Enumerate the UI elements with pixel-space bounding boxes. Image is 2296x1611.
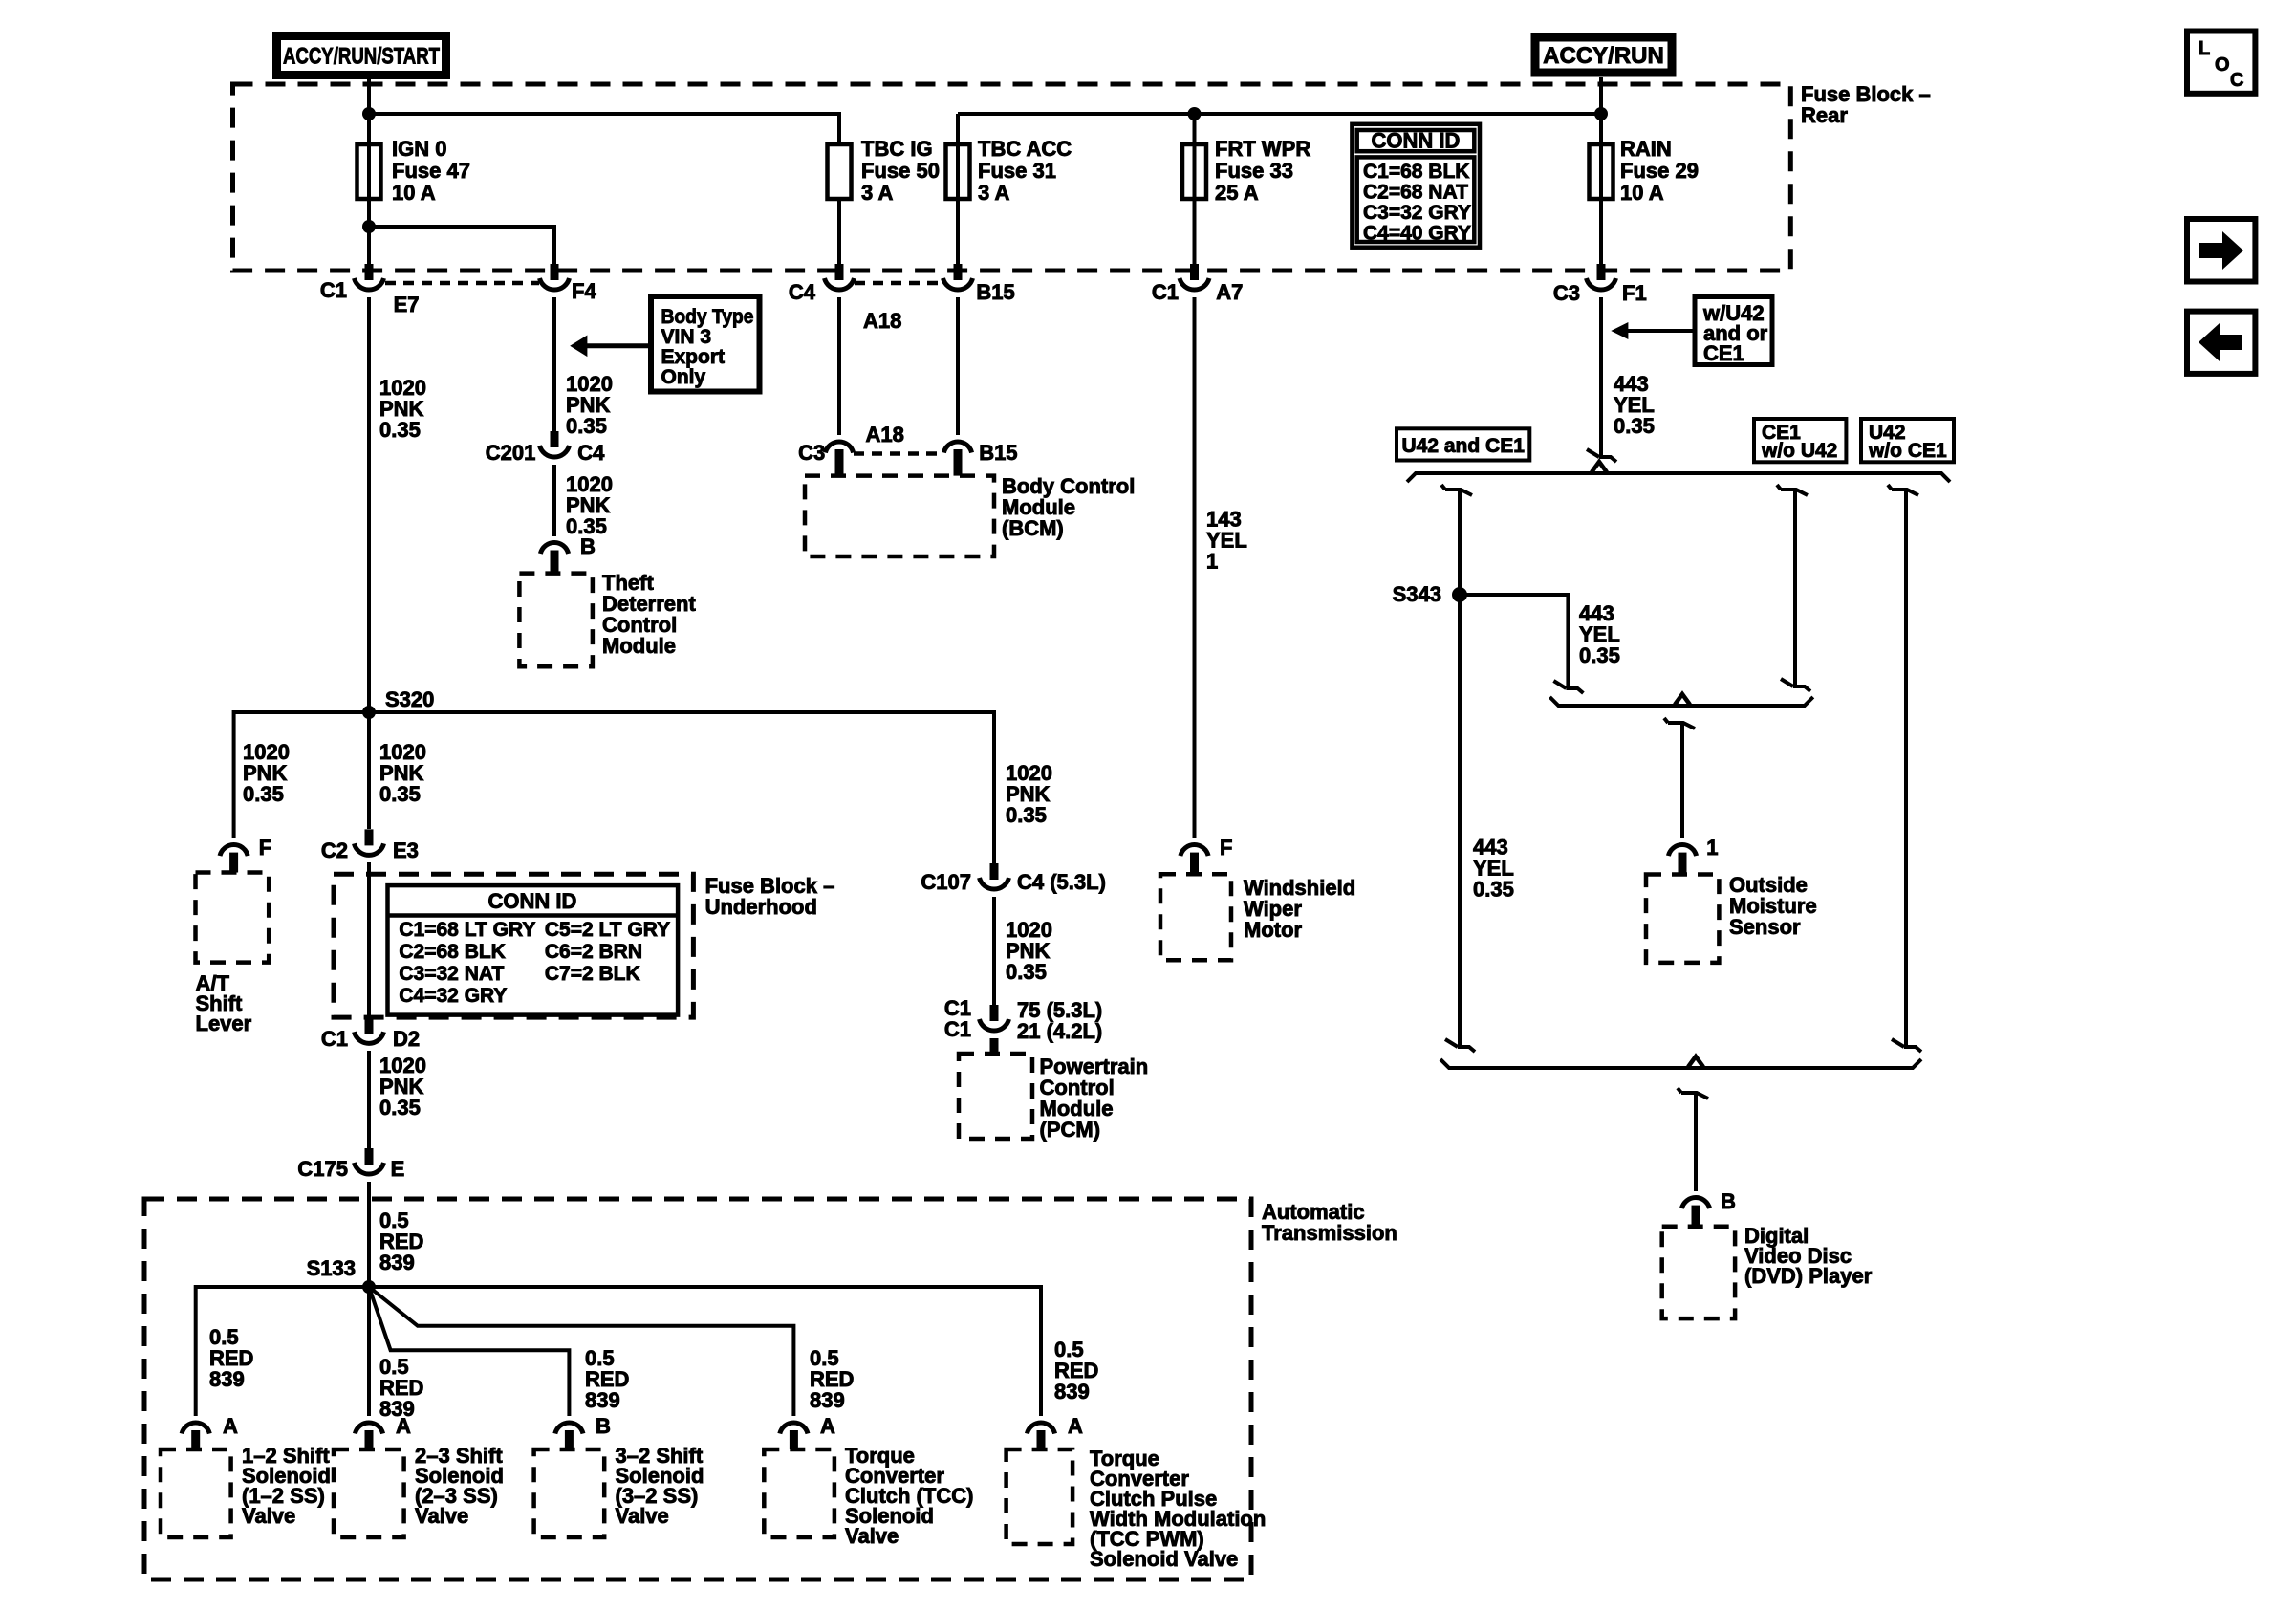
svg-text:TBC ACC: TBC ACC [978, 137, 1072, 161]
connector C3/F1 [1587, 264, 1616, 290]
svg-text:Fuse 50: Fuse 50 [861, 159, 940, 183]
svg-text:C107: C107 [921, 870, 971, 894]
svg-text:C2=68 BLK: C2=68 BLK [399, 941, 505, 963]
wire drop to S343 [1458, 490, 1462, 595]
svg-text:0.35: 0.35 [1579, 643, 1620, 667]
connector C175/E [355, 1148, 384, 1174]
svg-text:C1: C1 [1152, 280, 1179, 304]
svg-text:IGN 0: IGN 0 [392, 137, 446, 161]
break hook S343 branch [1553, 681, 1566, 688]
junction under ACCY/RUN/START [362, 107, 376, 120]
body type VIN3 export callout box [651, 296, 760, 392]
splice S133 [362, 1280, 376, 1294]
svg-text:C1=68 LT GRY: C1=68 LT GRY [399, 919, 535, 941]
1-2 shift solenoid box [161, 1449, 231, 1537]
svg-text:839: 839 [1054, 1380, 1090, 1404]
wire S133 to TCC solenoid [369, 1287, 793, 1416]
conn id table underhood [388, 885, 679, 1015]
svg-text:Rear: Rear [1801, 103, 1848, 127]
splice S320 [362, 706, 376, 719]
svg-text:Body Type: Body Type [661, 306, 754, 328]
svg-text:Valve: Valve [415, 1504, 468, 1528]
svg-text:Module: Module [602, 634, 676, 658]
svg-text:C4: C4 [789, 280, 816, 304]
connector C107/C4 [980, 863, 1009, 889]
svg-text:D2: D2 [393, 1027, 420, 1051]
svg-text:C4=40 GRY: C4=40 GRY [1363, 223, 1471, 245]
svg-text:Only: Only [661, 366, 706, 388]
connector C1/E7 [355, 264, 384, 290]
connector F wiper motor [1180, 845, 1208, 857]
connector C4 (TBC IG) [825, 264, 855, 290]
wire to connector E7 [367, 227, 371, 264]
drop U42 w/o CE1 top hook [1892, 490, 1918, 495]
connector C3 BCM [825, 442, 853, 453]
svg-text:C1: C1 [944, 1017, 971, 1041]
break hook below F1 [1587, 449, 1599, 457]
fuse block rear dashed box [233, 84, 1791, 271]
connector C1/C1 PCM [980, 1005, 1009, 1031]
svg-text:C7=2 BLK: C7=2 BLK [545, 963, 640, 985]
svg-text:E7: E7 [394, 293, 420, 316]
wire drop U42 w/o CE1 [1904, 490, 1908, 1047]
connector C2/E3 [355, 829, 384, 855]
middle option line bump [1675, 694, 1690, 705]
svg-text:Solenoid Valve: Solenoid Valve [1090, 1547, 1238, 1571]
outside moisture sensor box [1646, 875, 1719, 963]
conn id table rear [1352, 124, 1480, 248]
wire drop CE1 w/o U42 [1793, 490, 1797, 686]
svg-text:Valve: Valve [616, 1504, 669, 1528]
svg-text:0.35: 0.35 [1006, 960, 1047, 984]
fuse TBC ACC Fuse 31 3A [946, 144, 970, 199]
svg-text:C5=2 LT GRY: C5=2 LT GRY [545, 919, 670, 941]
wire bus to TBC IG fuse [369, 114, 839, 144]
connector F A/T shift lever [220, 845, 248, 857]
junction FRT WPR tap [1188, 107, 1202, 120]
svg-text:ACCY/RUN/START: ACCY/RUN/START [283, 44, 440, 70]
svg-text:A7: A7 [1216, 280, 1243, 304]
moisture sensor drop top hook [1668, 723, 1695, 729]
svg-text:C4 (5.3L): C4 (5.3L) [1017, 870, 1106, 894]
svg-text:S133: S133 [307, 1256, 356, 1280]
fuse IGN 0 Fuse 47 10A [357, 144, 381, 199]
power feed box ACCY/RUN [1535, 37, 1672, 73]
wire S133 to 3-2 solenoid [369, 1287, 569, 1416]
previous page arrow icon [2187, 312, 2255, 374]
bottom option line [1440, 1059, 1921, 1068]
top option line [1407, 473, 1950, 482]
svg-text:839: 839 [585, 1388, 620, 1412]
connector C1/A7 [1180, 264, 1209, 290]
svg-text:A: A [1068, 1414, 1083, 1438]
svg-text:0.35: 0.35 [1006, 803, 1047, 827]
svg-text:w/o U42: w/o U42 [1761, 440, 1837, 462]
fuse TBC IG Fuse 50 3A [828, 144, 852, 199]
svg-text:A: A [820, 1414, 835, 1438]
svg-text:0.35: 0.35 [379, 418, 421, 442]
TCC PWM solenoid box [1007, 1449, 1073, 1544]
dashed jumper C3-B15 BCM [854, 451, 943, 456]
fuse RAIN Fuse 29 10A [1590, 144, 1614, 199]
option label box CE1 w/o U42 [1754, 419, 1846, 462]
TCC solenoid box [764, 1449, 834, 1537]
dashed jumper E7-F4 [385, 281, 539, 286]
svg-text:CONN ID: CONN ID [488, 889, 577, 913]
wire C1/D2 to C175 [367, 1051, 371, 1148]
svg-text:3 A: 3 A [861, 181, 894, 205]
wire S320 branch to A/T shift lever [234, 712, 369, 838]
svg-text:C: C [2230, 70, 2243, 91]
svg-text:Fuse 31: Fuse 31 [978, 159, 1056, 183]
svg-text:A18: A18 [866, 423, 904, 446]
windshield wiper motor box [1160, 874, 1231, 960]
connector 1 moisture sensor [1668, 845, 1696, 857]
wire E7 to S320 to C2 [367, 297, 371, 829]
wire C107 to PCM [992, 897, 996, 1005]
wire S133 to 2-3 solenoid [367, 1287, 371, 1416]
svg-text:0.35: 0.35 [566, 414, 607, 438]
connector B DVD player [1681, 1198, 1709, 1209]
automatic transmission dashed box [144, 1199, 1251, 1579]
theft deterrent control module box [519, 574, 593, 667]
svg-text:C175: C175 [297, 1157, 348, 1181]
svg-text:Export: Export [661, 346, 726, 368]
connector B 3-2 solenoid [555, 1423, 583, 1434]
dashed jumper C4-B15 [855, 281, 942, 286]
body control module box [805, 476, 994, 556]
svg-text:0.35: 0.35 [243, 782, 284, 806]
middle option line [1549, 697, 1812, 706]
svg-text:0.35: 0.35 [1614, 414, 1655, 438]
fuse FRT WPR Fuse 33 25A [1182, 144, 1206, 199]
svg-text:(BCM): (BCM) [1002, 516, 1064, 540]
svg-text:CONN ID: CONN ID [1372, 129, 1461, 153]
2-3 shift solenoid box [334, 1449, 404, 1537]
svg-text:C3: C3 [798, 441, 825, 465]
svg-text:TBC IG: TBC IG [861, 137, 933, 161]
svg-text:O: O [2215, 54, 2230, 76]
svg-text:CE1: CE1 [1703, 341, 1744, 365]
svg-text:C3: C3 [1553, 281, 1580, 305]
svg-text:FRT WPR: FRT WPR [1215, 137, 1310, 161]
svg-text:Fuse 29: Fuse 29 [1620, 159, 1699, 183]
svg-text:ACCY/RUN: ACCY/RUN [1543, 43, 1664, 69]
LOC icon box [2187, 32, 2255, 94]
svg-text:C1: C1 [321, 1027, 348, 1051]
svg-text:VIN 3: VIN 3 [661, 326, 712, 348]
connector A 2-3 solenoid [355, 1423, 382, 1434]
svg-text:1: 1 [1206, 550, 1218, 574]
svg-text:Fuse 33: Fuse 33 [1215, 159, 1293, 183]
wire branch to F4 [369, 227, 554, 264]
svg-text:21 (4.2L): 21 (4.2L) [1017, 1019, 1102, 1043]
connector A TCC solenoid [780, 1423, 808, 1434]
svg-text:S343: S343 [1393, 582, 1441, 606]
callout box w/U42 and or CE1 [1695, 297, 1772, 365]
connector A 1-2 solenoid [182, 1423, 209, 1434]
svg-text:C2=68 NAT: C2=68 NAT [1363, 182, 1468, 204]
svg-text:F: F [259, 836, 271, 860]
svg-text:10 A: 10 A [392, 181, 436, 205]
svg-text:RAIN: RAIN [1620, 137, 1672, 161]
svg-text:C1: C1 [320, 278, 347, 302]
connector B15 top [943, 264, 973, 290]
break hook S343 down [1445, 1039, 1458, 1047]
svg-text:C1=68 BLK: C1=68 BLK [1363, 161, 1469, 183]
wire TBC ACC to BCM B15 [956, 297, 960, 435]
svg-text:1: 1 [1706, 836, 1718, 860]
wire S133 to 1-2 solenoid [196, 1287, 369, 1416]
svg-text:E: E [391, 1157, 405, 1181]
svg-text:C6=2 BRN: C6=2 BRN [545, 941, 642, 963]
break hook CE1 w/o U42 [1781, 679, 1793, 686]
svg-text:10 A: 10 A [1620, 181, 1664, 205]
wire FRT WPR to wiper motor [1193, 297, 1197, 838]
connector B15 BCM [943, 442, 971, 453]
splice S343 [1452, 587, 1467, 602]
drop U42 and CE1 top hook [1445, 490, 1472, 495]
drop CE1 w/o U42 top hook [1781, 490, 1808, 495]
svg-text:0.35: 0.35 [379, 782, 421, 806]
svg-text:A: A [223, 1414, 238, 1438]
svg-text:A: A [396, 1414, 411, 1438]
wire to DVD player [1694, 1093, 1698, 1191]
svg-text:839: 839 [209, 1367, 245, 1391]
wire S343 branch right [1460, 595, 1568, 688]
svg-text:Underhood: Underhood [705, 895, 817, 919]
svg-text:25 A: 25 A [1215, 181, 1259, 205]
svg-text:B: B [580, 534, 596, 558]
next page arrow icon [2187, 219, 2255, 282]
DVD drop top hook [1681, 1093, 1708, 1099]
svg-text:C4: C4 [577, 441, 605, 465]
svg-text:Transmission: Transmission [1262, 1221, 1397, 1245]
svg-text:B15: B15 [976, 280, 1014, 304]
svg-text:3 A: 3 A [978, 181, 1010, 205]
top option line bump [1592, 462, 1607, 472]
svg-text:839: 839 [810, 1388, 845, 1412]
w/U42 arrow [1626, 329, 1694, 333]
svg-text:C4=32 GRY: C4=32 GRY [399, 985, 507, 1007]
wire C201 to theft module [552, 465, 556, 536]
svg-text:C3=32 GRY: C3=32 GRY [1363, 202, 1471, 224]
svg-text:U42 and CE1: U42 and CE1 [1402, 435, 1526, 457]
wire ACCY/RUN to RAIN fuse [1599, 77, 1603, 264]
svg-text:w/o CE1: w/o CE1 [1868, 440, 1947, 462]
svg-text:E3: E3 [393, 838, 419, 862]
option label box U42 w/o CE1 [1861, 419, 1954, 462]
wire through underhood block [367, 862, 371, 1017]
wire to moisture sensor [1680, 723, 1684, 838]
connector C1/D2 [355, 1017, 384, 1043]
wire through fuse FRT WPR [1193, 114, 1197, 264]
svg-text:Valve: Valve [242, 1504, 295, 1528]
wire F4 to C201 [552, 297, 556, 431]
svg-text:Valve: Valve [845, 1524, 899, 1548]
DVD player box [1662, 1227, 1735, 1318]
3-2 shift solenoid box [534, 1449, 605, 1537]
junction below fuse IGN 0 [362, 220, 376, 233]
wire TBC IG below fuse [837, 199, 841, 264]
svg-text:S320: S320 [385, 687, 434, 711]
svg-text:F: F [1220, 836, 1232, 860]
wire S343 down [1458, 595, 1462, 1047]
wire from ACCY/RUN/START to bus [367, 79, 371, 114]
junction under ACCY/RUN [1594, 107, 1608, 120]
svg-text:Sensor: Sensor [1729, 915, 1801, 939]
svg-text:C201: C201 [486, 441, 536, 465]
svg-text:Lever: Lever [196, 1012, 252, 1035]
svg-text:839: 839 [379, 1251, 415, 1274]
body type arrow [585, 343, 651, 348]
connector F4 [540, 264, 570, 290]
wire bus ACCY/RUN to TBC ACC [958, 112, 1601, 116]
svg-text:(PCM): (PCM) [1040, 1118, 1101, 1142]
option label box U42 and CE1 [1397, 428, 1529, 460]
svg-text:L: L [2199, 38, 2210, 59]
svg-text:B15: B15 [979, 441, 1017, 465]
svg-text:C3=32 NAT: C3=32 NAT [399, 963, 504, 985]
svg-text:F4: F4 [572, 279, 596, 303]
power feed box ACCY/RUN/START [277, 36, 446, 76]
svg-text:C2: C2 [321, 838, 348, 862]
svg-text:Fuse 47: Fuse 47 [392, 159, 470, 183]
svg-text:(DVD) Player: (DVD) Player [1744, 1264, 1873, 1288]
break hook U42 w/o CE1 [1892, 1039, 1904, 1047]
wire S133 to TCC PWM solenoid [369, 1287, 1041, 1416]
wire S320 branch to PCM [369, 712, 994, 863]
svg-text:0.35: 0.35 [1473, 878, 1514, 902]
bottom option line bump [1688, 1056, 1703, 1067]
wire C175 to S133 [367, 1182, 371, 1287]
wire F1 down to option break [1599, 297, 1603, 457]
A/T shift lever box [196, 873, 270, 963]
powertrain control module box [959, 1054, 1032, 1139]
wire through fuse TBC ACC [956, 114, 960, 264]
wire through fuse IGN 0 [367, 114, 371, 227]
connector C201/C4 [540, 431, 570, 457]
svg-text:B: B [596, 1414, 611, 1438]
connector A TCC PWM solenoid [1027, 1423, 1054, 1434]
svg-text:Motor: Motor [1244, 918, 1303, 942]
svg-text:B: B [1721, 1189, 1736, 1213]
svg-text:0.35: 0.35 [379, 1096, 421, 1120]
svg-text:F1: F1 [1622, 281, 1647, 305]
fuse block underhood dashed box [334, 874, 693, 1017]
connector B theft module [540, 542, 568, 554]
svg-text:A18: A18 [863, 309, 901, 333]
wire TBC IG to BCM C3 [837, 297, 841, 435]
